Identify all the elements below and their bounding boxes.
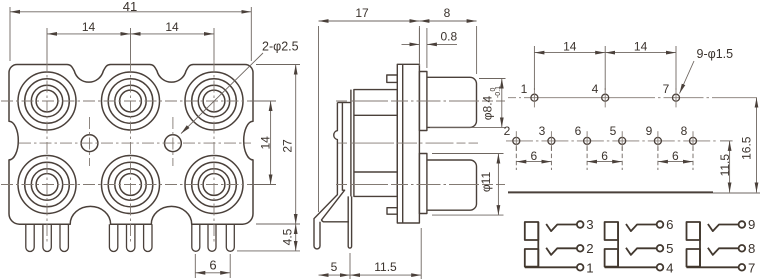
pins under column 2 xyxy=(109,224,117,251)
svg-text:14: 14 xyxy=(165,20,179,34)
svg-text:5: 5 xyxy=(610,124,617,138)
J1 switch contact to terminal 3 xyxy=(546,224,577,231)
svg-text:14: 14 xyxy=(82,20,96,34)
port A2 rings xyxy=(102,72,160,130)
svg-text:7: 7 xyxy=(748,260,755,275)
svg-text:8: 8 xyxy=(444,6,451,20)
top tab xyxy=(387,75,398,82)
svg-text:φ11: φ11 xyxy=(479,172,493,193)
svg-text:9: 9 xyxy=(646,124,653,138)
J2 wire to terminal 4 xyxy=(605,266,657,268)
J3 common bus wire xyxy=(699,222,701,267)
dimension 11.5 layout xyxy=(720,140,733,142)
svg-text:17: 17 xyxy=(355,6,369,20)
bracket top edge xyxy=(337,102,351,104)
svg-text:2: 2 xyxy=(504,124,511,138)
J2 sleeve contact upper xyxy=(605,222,619,240)
hole centerline bottom row xyxy=(506,140,718,142)
J1 sleeve contact lower xyxy=(525,249,539,267)
dimension 14 right side xyxy=(250,101,276,185)
svg-text:5: 5 xyxy=(331,260,338,274)
svg-text:6: 6 xyxy=(601,149,608,163)
connector body outline xyxy=(9,65,253,225)
port B3 rings xyxy=(185,156,243,214)
J3 terminal 8 xyxy=(739,245,746,252)
barrel bottom xyxy=(427,160,477,210)
centerline hole H2 vertical xyxy=(172,117,174,166)
J3 wire to terminal 7 xyxy=(687,266,739,268)
dimension 0.8 xyxy=(402,28,458,68)
svg-text:φ8.4: φ8.4 xyxy=(481,95,495,120)
svg-text:14: 14 xyxy=(634,40,648,54)
centerline holes xyxy=(19,142,251,144)
mounting hole H1 xyxy=(81,135,98,152)
jack J1 contacts xyxy=(525,221,584,270)
dimension 11.5 xyxy=(350,228,421,279)
centerline row 2 xyxy=(1,184,257,186)
base line thick xyxy=(508,191,713,193)
hole 9 xyxy=(654,137,661,144)
bottom tab xyxy=(387,208,397,215)
J1 terminal 1 xyxy=(577,264,584,271)
svg-text:6: 6 xyxy=(575,124,582,138)
centerline col 1 xyxy=(46,60,48,242)
svg-text:3: 3 xyxy=(539,124,546,138)
centerlines left view xyxy=(1,60,257,242)
centerline top jack axis xyxy=(336,100,505,102)
base line thin xyxy=(713,192,760,194)
port A3 rings xyxy=(185,72,243,130)
J2 sleeve contact lower xyxy=(605,249,619,267)
svg-text:9: 9 xyxy=(748,217,755,232)
J3 switch contact to terminal 9 xyxy=(708,224,739,231)
dimension 16.5 xyxy=(756,98,758,193)
dimension phi8.4 0/-0.1 xyxy=(430,79,506,128)
centerline col 2 xyxy=(130,60,132,242)
J1 terminal 3 xyxy=(577,221,584,228)
J1 terminal 2 xyxy=(577,245,584,252)
dimension 14 top left xyxy=(47,28,214,60)
bracket inner contour xyxy=(322,103,350,222)
svg-text:11.5: 11.5 xyxy=(374,260,397,274)
pins under column 3 xyxy=(192,224,200,251)
svg-text:6: 6 xyxy=(672,149,679,163)
J2 terminal 4 xyxy=(657,264,664,271)
dimension 27 xyxy=(256,65,300,225)
svg-text:5: 5 xyxy=(666,241,673,256)
svg-text:11.5: 11.5 xyxy=(718,154,732,177)
J1 switch contact to terminal 2 xyxy=(546,248,577,255)
svg-text:1: 1 xyxy=(586,260,593,275)
hole 7 xyxy=(673,94,680,101)
hole 4 xyxy=(602,94,609,101)
dimension phi11 xyxy=(432,154,504,216)
J3 sleeve contact upper xyxy=(687,222,701,240)
svg-text:6: 6 xyxy=(209,257,216,272)
svg-text:14: 14 xyxy=(563,40,577,54)
hole centerline top row xyxy=(508,97,757,99)
label 2-phi2.5 with leader xyxy=(181,53,263,134)
dimension 6 under holes 9-8 xyxy=(658,147,693,171)
J2 switch contact to terminal 5 xyxy=(626,248,657,255)
J3 switch contact to terminal 8 xyxy=(708,248,739,255)
svg-text:4: 4 xyxy=(666,260,673,275)
svg-text:27: 27 xyxy=(280,139,294,153)
hole vertical ticks xyxy=(516,88,693,151)
centerline row 1 xyxy=(1,100,257,102)
svg-text:2-φ2.5: 2-φ2.5 xyxy=(262,40,299,54)
bracket outer contour xyxy=(314,103,337,249)
dimension 14 layout right xyxy=(605,52,676,54)
svg-text:6: 6 xyxy=(666,217,673,232)
J1 wire to terminal 1 xyxy=(525,266,577,268)
J3 terminal 9 xyxy=(739,221,746,228)
J3 terminal 7 xyxy=(739,264,746,271)
svg-text:3: 3 xyxy=(586,217,593,232)
rear block line bottom jack xyxy=(354,171,397,173)
port A1 rings xyxy=(18,72,76,130)
dimension 4.5 xyxy=(237,224,300,251)
flange plate xyxy=(397,64,419,223)
dimension 5 xyxy=(319,253,351,279)
svg-text:4.5: 4.5 xyxy=(281,228,295,245)
barrel top xyxy=(427,77,477,127)
centerline hole axis xyxy=(338,142,478,144)
J2 terminal 6 xyxy=(657,221,664,228)
svg-text:2: 2 xyxy=(586,241,593,256)
pin of side view xyxy=(348,196,351,248)
J1 common bus wire xyxy=(537,222,539,267)
dimension 14 top right xyxy=(131,33,215,35)
mounting hole H2 xyxy=(165,135,182,152)
J2 terminal 5 xyxy=(657,245,664,252)
svg-text:14: 14 xyxy=(259,136,273,150)
hole 3 xyxy=(548,137,555,144)
J1 sleeve contact upper xyxy=(525,222,539,240)
svg-text:4: 4 xyxy=(592,82,599,96)
centerline hole H1 vertical xyxy=(89,117,91,166)
svg-text:0.8: 0.8 xyxy=(441,30,458,44)
rear cover strip xyxy=(350,90,352,197)
svg-text:7: 7 xyxy=(663,82,670,96)
svg-text:16.5: 16.5 xyxy=(740,136,754,160)
dimension 14 layout left xyxy=(534,46,676,90)
svg-text:1: 1 xyxy=(521,82,528,96)
svg-text:8: 8 xyxy=(681,124,688,138)
centerlines side view xyxy=(336,101,505,185)
port B1 rings xyxy=(18,156,76,214)
svg-text:9-φ1.5: 9-φ1.5 xyxy=(697,47,734,61)
plate inner step line xyxy=(402,64,404,223)
RCA port circles row 1 xyxy=(18,72,243,214)
hole 2 xyxy=(513,137,520,144)
rear block line top jack xyxy=(354,114,397,116)
centerline col 3 xyxy=(213,60,215,242)
svg-text:8: 8 xyxy=(748,241,755,256)
dimension 41 xyxy=(10,7,251,61)
hole 1 xyxy=(531,94,538,101)
hole 8 xyxy=(690,137,697,144)
hole 5 xyxy=(619,137,626,144)
centerline bottom jack axis xyxy=(336,184,505,186)
port B2 rings xyxy=(102,156,160,214)
dimension 6 under holes 2-3 xyxy=(516,147,551,171)
jack J2 contacts xyxy=(605,221,664,270)
label 9-phi1.5 with leader xyxy=(680,61,695,94)
washer bottom xyxy=(419,154,427,214)
jack J3 contacts xyxy=(687,221,746,270)
rear block xyxy=(354,90,397,197)
svg-text:-0.1: -0.1 xyxy=(495,86,502,98)
washer top (0.8) xyxy=(419,72,427,131)
J2 common bus wire xyxy=(617,222,619,267)
svg-text:6: 6 xyxy=(530,149,537,163)
dimension 8 xyxy=(419,21,476,74)
hole 6 xyxy=(584,137,591,144)
dimension 17 xyxy=(319,21,420,212)
dimension 6 bottom left view xyxy=(195,254,230,278)
J2 switch contact to terminal 6 xyxy=(626,224,657,231)
dimension 6 under holes 6-5 xyxy=(587,147,622,171)
svg-text:41: 41 xyxy=(123,0,137,14)
pins under column 1 xyxy=(26,224,235,251)
J3 sleeve contact lower xyxy=(687,249,701,267)
